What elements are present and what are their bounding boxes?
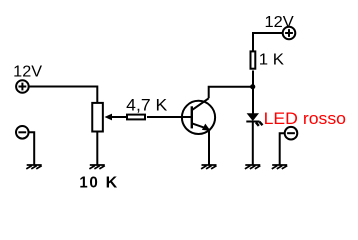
ground under potentiometer	[89, 165, 104, 169]
svg-text:4,7 K: 4,7 K	[126, 97, 167, 115]
junction node collector rail	[250, 84, 255, 89]
wire collector to junction	[209, 87, 253, 99]
wire LED cathode to ground	[252, 122, 254, 165]
terminal +12V left supply	[16, 80, 29, 93]
resistor 1K body	[251, 51, 256, 68]
ground left	[26, 165, 41, 169]
svg-text:1: 1	[79, 174, 88, 191]
svg-text:1 K: 1 K	[259, 52, 285, 69]
wire - terminal to ground left	[29, 132, 34, 164]
transistor Q1 NPN	[182, 98, 215, 134]
wire resistor to transistor base	[147, 116, 192, 118]
ground under transistor emitter	[201, 165, 216, 169]
wire - right terminal to ground	[280, 133, 285, 164]
terminal - right supply	[285, 127, 298, 140]
terminal +12V right supply	[283, 27, 296, 40]
wire 12V right to resistor 1K	[253, 33, 282, 51]
svg-text:12V: 12V	[265, 14, 295, 31]
svg-text:12V: 12V	[13, 64, 42, 81]
wire 1K to LED anode	[252, 71, 254, 114]
svg-text:LED rosso: LED rosso	[264, 109, 346, 128]
wire emitter to ground	[208, 131, 210, 165]
wire 12V left to potentiometer top	[29, 87, 97, 104]
ground right	[272, 165, 287, 169]
svg-text:K: K	[106, 174, 118, 191]
potentiometer 10K body	[92, 103, 103, 132]
label 10 K	[79, 174, 118, 191]
ground under LED	[245, 165, 260, 169]
wire potentiometer bottom to ground	[96, 132, 98, 165]
svg-text:0: 0	[89, 174, 97, 191]
LED D1 red	[246, 113, 262, 126]
terminal - left supply	[16, 126, 29, 139]
resistor 4,7 K body	[127, 115, 145, 120]
potentiometer wiper arrow and wire to resistor	[105, 114, 128, 121]
